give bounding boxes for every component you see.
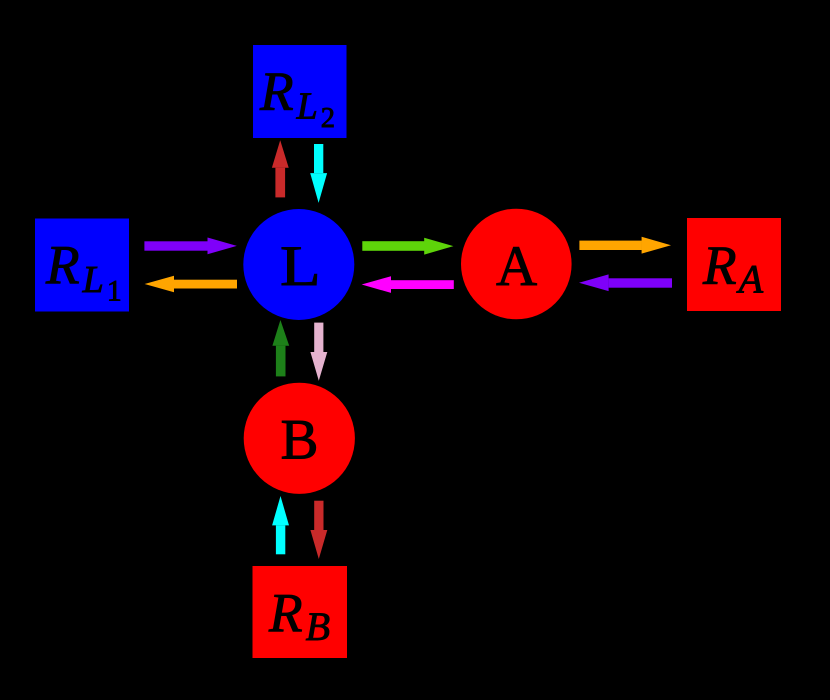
svg-text:B: B bbox=[281, 409, 319, 472]
svg-text:A: A bbox=[496, 235, 537, 298]
svg-text:L: L bbox=[280, 235, 321, 297]
